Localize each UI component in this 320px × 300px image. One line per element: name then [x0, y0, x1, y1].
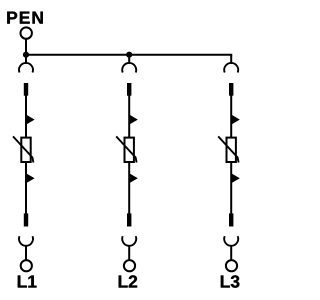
plug pin bar, top (L2 branch)	[127, 83, 131, 96]
varistor diagonal stroke (L1 branch)	[13, 136, 33, 162]
direction arrow, lower (L2 branch)	[129, 173, 138, 183]
varistor diagonal stroke (L2 branch)	[116, 136, 136, 162]
wire: bottom connector to terminal L2	[128, 246, 130, 261]
wire: bus to top connector (L2 branch)	[128, 55, 130, 64]
plug pin bar, bottom (L2 branch)	[127, 213, 131, 226]
label L1	[18, 276, 37, 288]
plug pin bar, top (L1 branch)	[24, 83, 28, 96]
plug-in disconnect connector, bottom (L2 branch)	[122, 236, 136, 246]
wire: top pin to varistor (L3 branch)	[230, 95, 232, 138]
plug-in disconnect connector, bottom (L1 branch)	[19, 236, 33, 246]
plug-in disconnect connector, top (L3 branch)	[224, 63, 238, 73]
direction arrow, upper (L3 branch)	[231, 115, 240, 125]
node: junction PEN / L1 branch	[23, 52, 29, 58]
direction arrow, lower (L1 branch)	[26, 173, 35, 183]
plug pin bar, bottom (L3 branch)	[229, 213, 233, 226]
wire: bottom connector to terminal L3	[230, 246, 232, 261]
direction arrow, upper (L2 branch)	[129, 115, 138, 125]
plug-in disconnect connector, bottom (L3 branch)	[224, 236, 238, 246]
wire: top pin to varistor (L2 branch)	[128, 95, 130, 138]
wire: varistor to bottom pin (L2 branch)	[128, 162, 130, 214]
label L2	[119, 275, 137, 287]
varistor body (L3 branch)	[227, 138, 236, 162]
terminal L2	[124, 260, 135, 271]
plug-in disconnect connector, top (L2 branch)	[122, 63, 136, 73]
wire: varistor to bottom pin (L1 branch)	[25, 162, 27, 214]
label L3	[221, 275, 240, 287]
plug-in disconnect connector, top (L1 branch)	[19, 63, 33, 73]
terminal PEN	[21, 27, 32, 38]
plug pin bar, top (L3 branch)	[229, 83, 233, 96]
wire: PEN bus	[26, 54, 232, 56]
wire: PEN terminal to bus	[25, 39, 27, 55]
direction arrow, upper (L1 branch)	[26, 115, 35, 125]
wire: varistor to bottom pin (L3 branch)	[230, 162, 232, 214]
varistor body (L1 branch)	[21, 138, 30, 162]
varistor diagonal stroke (L3 branch)	[218, 136, 238, 162]
terminal L3	[226, 260, 237, 271]
node: junction bus / L2 branch	[126, 52, 132, 58]
plug pin bar, bottom (L1 branch)	[24, 213, 28, 226]
label PEN	[7, 12, 42, 24]
wire: bus to top connector (L1 branch)	[25, 55, 27, 64]
wire: top pin to varistor (L1 branch)	[25, 95, 27, 138]
varistor body (L2 branch)	[125, 138, 134, 162]
terminal L1	[21, 260, 32, 271]
wire: bottom connector to terminal L1	[25, 246, 27, 261]
wire: bus to top connector (L3 branch)	[230, 55, 232, 64]
direction arrow, lower (L3 branch)	[231, 173, 240, 183]
